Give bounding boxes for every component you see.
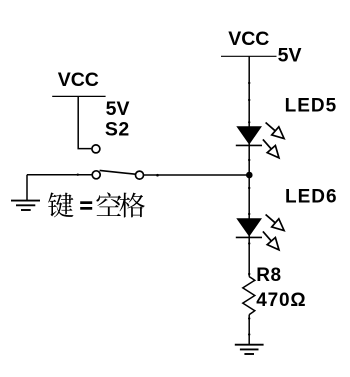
label key = space (Chinese annotation) bbox=[48, 192, 145, 217]
LED D5 symbol bbox=[236, 126, 262, 145]
wire switch to node bbox=[144, 174, 249, 176]
svg-text:5V: 5V bbox=[278, 45, 302, 67]
node junction dot bbox=[246, 172, 253, 179]
wire resistor to ground bbox=[248, 315, 250, 345]
power VCC (left, above switch) bbox=[52, 69, 105, 96]
svg-text:VCC: VCC bbox=[58, 69, 99, 91]
wire VCC down to switch pole (L-shape) bbox=[78, 96, 91, 148]
svg-text:5V: 5V bbox=[106, 98, 130, 120]
ground (bottom) bbox=[235, 345, 264, 354]
LED6 emission arrow 1 bbox=[262, 210, 288, 234]
wire pin-end dot on left wire bbox=[77, 174, 79, 176]
wire pin-end dot on node wire bbox=[156, 174, 159, 177]
resistor R8 zigzag bbox=[243, 277, 255, 315]
switch S2 blade bbox=[100, 170, 136, 174]
wire left of switch bbox=[27, 174, 92, 176]
LED5 emission arrow 1 bbox=[262, 118, 288, 142]
wire pin-end dots on main branch bbox=[248, 82, 250, 336]
ground (left) bbox=[11, 201, 40, 210]
switch S2 upper terminal circle bbox=[92, 145, 100, 153]
switch S2 right terminal circle bbox=[136, 171, 144, 179]
svg-text:S2: S2 bbox=[105, 119, 130, 141]
svg-text:LED5: LED5 bbox=[285, 96, 338, 117]
svg-text:VCC: VCC bbox=[228, 28, 269, 50]
LED5 emission arrow 2 bbox=[259, 136, 283, 162]
wire down to left ground bbox=[26, 175, 28, 201]
LED6 emission arrow 2 bbox=[259, 228, 283, 254]
power VCC (right, net VCC 5V) bbox=[221, 28, 277, 57]
switch S2 left terminal circle bbox=[92, 171, 100, 179]
svg-text:LED6: LED6 bbox=[285, 186, 338, 207]
svg-text:R8: R8 bbox=[256, 265, 281, 286]
svg-text:470Ω: 470Ω bbox=[256, 290, 306, 311]
LED D6 symbol bbox=[236, 218, 262, 237]
wire vertical main branch x=249 bbox=[248, 56, 250, 276]
